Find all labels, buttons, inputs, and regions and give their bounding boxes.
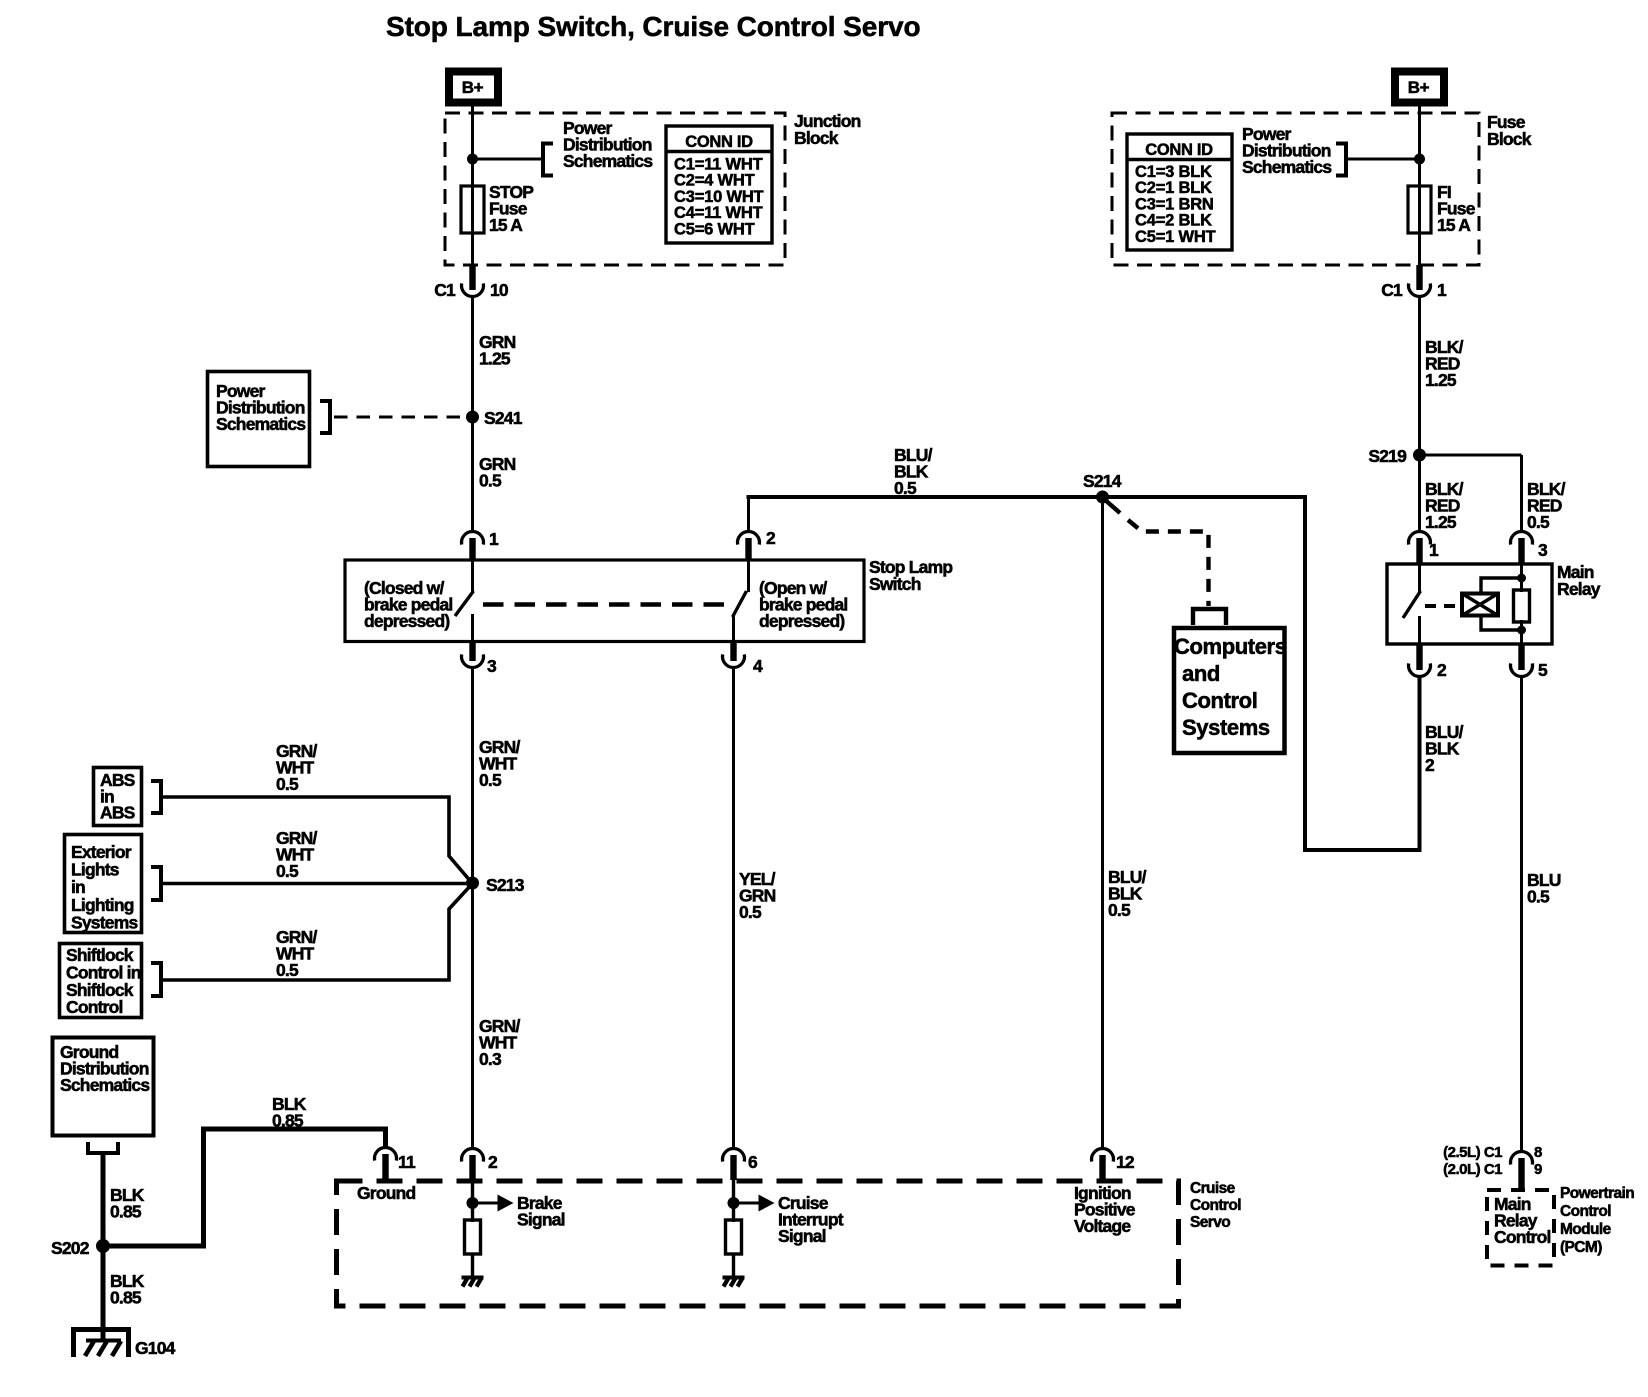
svg-text:0.85: 0.85 [110, 1288, 142, 1308]
svg-text:Control: Control [66, 997, 123, 1017]
svg-text:3: 3 [1538, 540, 1548, 560]
svg-text:Systems: Systems [1182, 715, 1270, 740]
svg-text:Control: Control [1494, 1227, 1551, 1247]
svg-text:5: 5 [1538, 660, 1548, 680]
svg-text:Cruise: Cruise [1190, 1180, 1236, 1197]
svg-text:0.5: 0.5 [1527, 887, 1550, 907]
svg-text:B+: B+ [462, 78, 484, 97]
svg-text:0.5: 0.5 [479, 770, 502, 790]
svg-text:S214: S214 [1083, 471, 1122, 491]
svg-text:1: 1 [1429, 540, 1439, 560]
svg-text:(PCM): (PCM) [1560, 1239, 1602, 1256]
svg-text:Schematics: Schematics [1242, 157, 1332, 177]
svg-text:0.85: 0.85 [110, 1202, 142, 1222]
svg-text:Module: Module [1560, 1221, 1612, 1238]
svg-text:Voltage: Voltage [1074, 1216, 1131, 1236]
svg-text:Schematics: Schematics [60, 1075, 150, 1095]
svg-text:4: 4 [753, 656, 763, 676]
svg-text:S213: S213 [486, 875, 525, 895]
svg-text:Block: Block [1487, 129, 1532, 149]
svg-text:Powertrain: Powertrain [1560, 1185, 1634, 1202]
svg-text:Servo: Servo [1190, 1214, 1230, 1231]
svg-text:3: 3 [487, 656, 497, 676]
svg-text:ABS: ABS [100, 803, 135, 823]
svg-text:Systems: Systems [71, 912, 138, 932]
svg-text:CONN ID: CONN ID [685, 133, 753, 151]
svg-text:1: 1 [489, 529, 499, 549]
svg-text:S202: S202 [51, 1238, 90, 1258]
svg-text:9: 9 [1534, 1161, 1542, 1178]
svg-text:C5=1 WHT: C5=1 WHT [1135, 228, 1216, 246]
svg-text:2: 2 [488, 1152, 498, 1172]
svg-text:10: 10 [490, 280, 509, 300]
svg-text:12: 12 [1116, 1152, 1135, 1172]
svg-text:2: 2 [1425, 755, 1435, 775]
svg-text:Control: Control [1182, 688, 1257, 713]
svg-text:G104: G104 [135, 1338, 176, 1358]
svg-text:1.25: 1.25 [479, 349, 511, 369]
svg-text:B+: B+ [1408, 78, 1430, 97]
svg-text:0.85: 0.85 [272, 1111, 304, 1131]
svg-text:Control: Control [1560, 1203, 1611, 1220]
svg-text:0.5: 0.5 [276, 960, 299, 980]
svg-text:C1: C1 [434, 280, 456, 300]
svg-text:Schematics: Schematics [563, 151, 653, 171]
svg-text:S241: S241 [484, 408, 523, 428]
svg-text:0.5: 0.5 [894, 478, 917, 498]
svg-text:Switch: Switch [869, 574, 921, 594]
svg-text:Ground: Ground [357, 1183, 415, 1203]
svg-text:Computers: Computers [1174, 634, 1287, 659]
svg-text:depressed): depressed) [759, 611, 844, 631]
svg-text:(2.5L) C1: (2.5L) C1 [1443, 1144, 1502, 1161]
svg-text:Signal: Signal [778, 1226, 826, 1246]
svg-text:2: 2 [1437, 660, 1447, 680]
svg-text:Block: Block [794, 128, 839, 148]
svg-text:0.5: 0.5 [1527, 512, 1550, 532]
svg-text:C1: C1 [1381, 280, 1403, 300]
svg-text:1.25: 1.25 [1425, 370, 1457, 390]
svg-text:11: 11 [398, 1152, 416, 1172]
svg-text:15 A: 15 A [1437, 215, 1471, 235]
svg-text:0.5: 0.5 [739, 902, 762, 922]
svg-text:CONN ID: CONN ID [1145, 141, 1213, 159]
svg-text:Relay: Relay [1557, 579, 1601, 599]
svg-text:depressed): depressed) [364, 611, 449, 631]
svg-text:C5=6 WHT: C5=6 WHT [674, 220, 755, 238]
svg-text:Signal: Signal [517, 1210, 565, 1230]
svg-text:1: 1 [1437, 280, 1447, 300]
svg-text:Stop Lamp Switch, Cruise Contr: Stop Lamp Switch, Cruise Control Servo [386, 11, 921, 42]
svg-text:8: 8 [1534, 1144, 1542, 1161]
svg-text:and: and [1182, 661, 1220, 686]
svg-text:(2.0L) C1: (2.0L) C1 [1443, 1161, 1502, 1178]
svg-text:0.3: 0.3 [479, 1049, 502, 1069]
svg-text:6: 6 [748, 1152, 758, 1172]
svg-text:0.5: 0.5 [479, 471, 502, 491]
svg-text:S219: S219 [1368, 446, 1407, 466]
svg-text:0.5: 0.5 [1108, 900, 1131, 920]
svg-text:0.5: 0.5 [276, 774, 299, 794]
svg-text:15 A: 15 A [489, 215, 523, 235]
svg-text:Control: Control [1190, 1197, 1241, 1214]
svg-text:0.5: 0.5 [276, 861, 299, 881]
svg-text:2: 2 [766, 528, 776, 548]
svg-text:1.25: 1.25 [1425, 512, 1457, 532]
svg-text:Schematics: Schematics [216, 414, 306, 434]
